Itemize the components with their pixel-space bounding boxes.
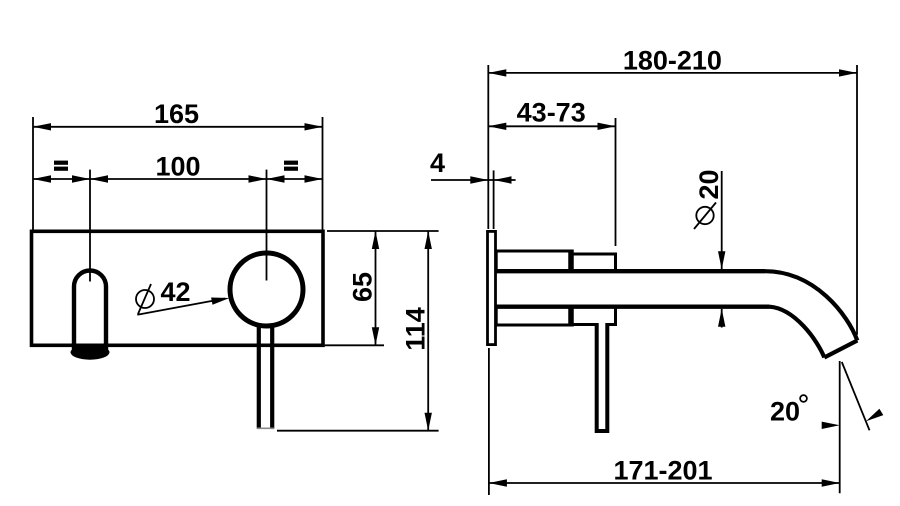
lever side xyxy=(597,323,608,431)
centerline spout xyxy=(89,170,91,282)
upper nut xyxy=(571,254,616,269)
svg-text:100: 100 xyxy=(155,152,200,182)
dimension 171-201 xyxy=(489,348,840,495)
dimension 165 xyxy=(33,99,323,231)
wall plate front xyxy=(32,231,324,345)
spout front xyxy=(74,271,106,352)
svg-text:114: 114 xyxy=(401,307,431,351)
spout pipe bottom line xyxy=(496,305,769,309)
upper connector divider xyxy=(568,250,574,272)
svg-text:20: 20 xyxy=(694,169,724,199)
dimension 65 xyxy=(325,231,439,345)
lower connector tube xyxy=(496,309,571,326)
svg-text:180-210: 180-210 xyxy=(623,45,722,75)
dimension 100 with equal marks xyxy=(33,152,323,183)
wall plate side xyxy=(488,231,496,344)
centerline handle xyxy=(266,170,268,281)
spout bend outer xyxy=(765,271,857,340)
upper connector tube xyxy=(496,251,571,269)
svg-text:43-73: 43-73 xyxy=(517,98,586,128)
lower nut xyxy=(571,309,616,325)
dimension 114 xyxy=(277,231,439,431)
spout bend inner xyxy=(770,307,825,358)
dimension 180-210 xyxy=(488,45,857,334)
handle circle xyxy=(230,253,303,326)
spout pipe top line xyxy=(496,269,765,273)
svg-text:165: 165 xyxy=(154,99,199,129)
svg-text:42: 42 xyxy=(160,277,190,307)
svg-text:171-201: 171-201 xyxy=(613,456,712,486)
equal mark right xyxy=(284,161,298,165)
dimension 43-73 xyxy=(488,98,615,247)
svg-text:65: 65 xyxy=(348,272,378,302)
svg-text:4: 4 xyxy=(430,148,445,178)
lower connector divider xyxy=(568,307,574,327)
spout outlet ellipse xyxy=(71,345,110,360)
dimension diameter 20 xyxy=(694,169,725,327)
diameter 42 label xyxy=(136,277,230,315)
dimension 20 degrees xyxy=(770,361,883,493)
equal mark left xyxy=(54,161,68,165)
lever front xyxy=(259,326,272,428)
svg-text:20: 20 xyxy=(770,397,800,427)
dimension 4 (plate thickness) xyxy=(430,148,516,229)
spout outlet face xyxy=(824,341,857,358)
